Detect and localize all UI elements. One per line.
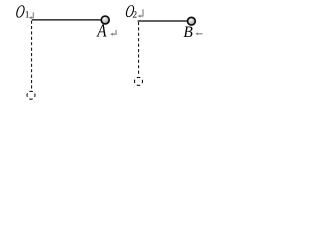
ball A bbox=[101, 16, 109, 24]
line-break mark after A bbox=[112, 30, 116, 34]
dashed circle (ball A final position) bbox=[27, 91, 35, 99]
wire: horizontal line O1 to ball A bbox=[32, 19, 101, 21]
wire: horizontal line O2 to ball B bbox=[138, 20, 187, 22]
dashed circle (ball B final position) bbox=[135, 77, 143, 85]
svg-text:2: 2 bbox=[132, 11, 137, 21]
svg-text:A: A bbox=[96, 20, 107, 41]
wire: dashed vertical line under O2 bbox=[138, 22, 140, 76]
svg-text:1: 1 bbox=[25, 11, 30, 21]
svg-text:B: B bbox=[183, 24, 193, 41]
ball B bbox=[188, 17, 196, 25]
paragraph mark after O1 bbox=[30, 12, 33, 17]
wire: dashed vertical line under O1 bbox=[31, 21, 33, 91]
paragraph mark after O2 bbox=[140, 9, 143, 16]
line-break mark after B bbox=[197, 33, 203, 35]
